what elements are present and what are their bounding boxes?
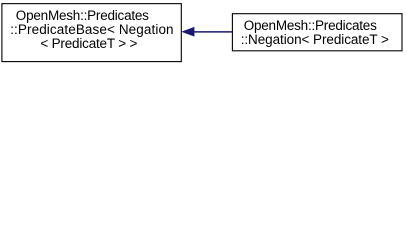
label line 2 of Negation box [241, 33, 389, 47]
label line 1 of Negation box [244, 19, 377, 33]
class box: OpenMesh::Predicates::PredicateBase< Negation< PredicateT > > [2, 4, 181, 62]
label line 3 of PredicateBase box [40, 37, 137, 51]
label line 1 of PredicateBase box [16, 9, 149, 23]
inheritance arrow shaft (public inheritance, midnightblue) [194, 31, 233, 33]
class box: OpenMesh::Predicates::Negation< PredicateT > [232, 14, 402, 51]
inheritance arrow head [183, 28, 194, 36]
label line 2 of PredicateBase box [10, 23, 173, 37]
